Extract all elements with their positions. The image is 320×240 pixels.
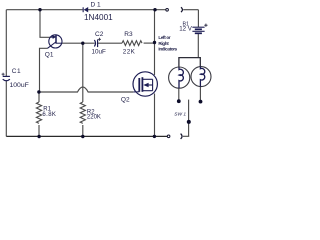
svg-text:Q1: Q1 bbox=[45, 52, 54, 59]
svg-text:12 V: 12 V bbox=[179, 26, 193, 33]
svg-text:SW 1: SW 1 bbox=[174, 111, 186, 117]
svg-text:100uF: 100uF bbox=[10, 82, 29, 89]
svg-text:Q2: Q2 bbox=[121, 96, 130, 103]
svg-text:Indicators: Indicators bbox=[158, 47, 177, 52]
svg-text:Left or: Left or bbox=[158, 35, 170, 40]
svg-text:D1: D1 bbox=[91, 1, 103, 8]
svg-text:220K: 220K bbox=[87, 115, 101, 121]
svg-text:1N4001: 1N4001 bbox=[84, 13, 113, 22]
svg-text:C1: C1 bbox=[12, 68, 21, 75]
svg-text:R3: R3 bbox=[124, 31, 133, 38]
svg-text:10uF: 10uF bbox=[92, 48, 107, 55]
svg-text:6.8K: 6.8K bbox=[42, 112, 56, 118]
svg-text:C2: C2 bbox=[95, 31, 104, 38]
svg-text:Right: Right bbox=[158, 41, 169, 46]
svg-text:22K: 22K bbox=[123, 48, 136, 55]
